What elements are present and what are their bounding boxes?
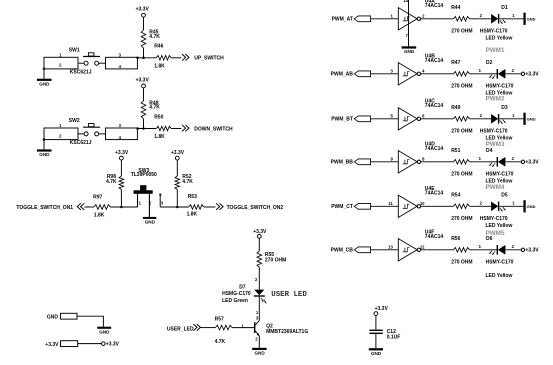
svg-text:270 OHM: 270 OHM [451,28,472,34]
svg-text:R46: R46 [154,44,163,50]
svg-text:PWM_BB: PWM_BB [331,159,354,165]
svg-text:R53: R53 [188,194,197,200]
svg-text:LED Yellow: LED Yellow [486,36,513,42]
svg-text:TOGGLE_SWITCH_ON1: TOGGLE_SWITCH_ON1 [16,205,73,211]
svg-text:UP_SWITCH: UP_SWITCH [194,56,224,62]
svg-text:PWM_AT: PWM_AT [332,16,353,22]
svg-text:HSMY-C170: HSMY-C170 [480,28,508,34]
svg-text:+3.3V: +3.3V [115,150,129,156]
svg-text:R51: R51 [451,148,460,154]
svg-text:HSMY-C170: HSMY-C170 [480,128,508,134]
svg-text:+3.3V: +3.3V [525,248,539,254]
svg-text:GND: GND [371,351,382,356]
svg-text:DOWN_SWITCH: DOWN_SWITCH [194,126,233,132]
svg-text:R56: R56 [451,236,460,242]
svg-text:74AC14: 74AC14 [425,58,444,64]
svg-text:R47: R47 [451,60,460,66]
svg-text:74AC14: 74AC14 [425,234,444,240]
svg-text:D7: D7 [239,284,246,290]
svg-text:+3.3V: +3.3V [171,150,185,156]
svg-text:74AC14: 74AC14 [425,146,444,152]
svg-text:GND: GND [145,220,156,225]
svg-text:KSC621J: KSC621J [70,69,92,75]
svg-text:PWM_BT: PWM_BT [331,116,353,122]
svg-text:PWM_CB: PWM_CB [331,247,354,253]
svg-text:10: 10 [420,201,425,206]
svg-text:13: 13 [388,245,393,250]
svg-text:USER LED: USER LED [271,291,307,299]
svg-text:HSMY-C170: HSMY-C170 [480,216,508,222]
svg-text:270 OHM: 270 OHM [451,259,472,265]
svg-text:USER_LED: USER_LED [167,327,194,333]
svg-text:HSMG-C170: HSMG-C170 [222,291,251,297]
svg-text:GND: GND [99,329,110,334]
svg-text:74AC14: 74AC14 [425,103,444,109]
svg-text:4.7K: 4.7K [149,105,160,111]
svg-text:+3.3V: +3.3V [525,160,539,166]
svg-text:1.8K: 1.8K [94,213,105,219]
svg-text:11: 11 [388,201,393,206]
svg-text:+3.3V: +3.3V [45,342,59,348]
svg-text:R57: R57 [215,317,224,323]
svg-text:PWM1: PWM1 [486,47,505,54]
svg-text:D5: D5 [501,192,508,198]
svg-text:LED Green: LED Green [222,298,248,304]
svg-text:D2: D2 [486,60,493,66]
svg-text:R50: R50 [154,114,163,120]
svg-text:74AC14: 74AC14 [425,190,444,196]
svg-text:GND: GND [254,350,265,355]
svg-text:PWM_CT: PWM_CT [331,204,353,210]
svg-text:1.8K: 1.8K [154,63,165,69]
svg-text:4.7K: 4.7K [182,179,193,185]
svg-text:D3: D3 [501,105,508,111]
svg-text:74AC14: 74AC14 [425,3,444,9]
svg-text:R97: R97 [93,194,102,200]
svg-text:1.8K: 1.8K [187,211,198,217]
svg-text:KSC621J: KSC621J [70,140,92,146]
svg-text:R54: R54 [451,192,460,198]
svg-text:4.7K: 4.7K [215,339,226,345]
svg-text:HSMY-C170: HSMY-C170 [486,83,514,89]
svg-text:GND: GND [527,17,536,22]
svg-text:4.7K: 4.7K [149,34,160,40]
svg-text:GND: GND [39,81,50,86]
svg-text:SW1: SW1 [69,47,80,53]
svg-text:HSMY-C170: HSMY-C170 [486,259,514,265]
svg-text:270 OHM: 270 OHM [451,216,472,222]
svg-text:LED Yellow: LED Yellow [486,223,513,229]
svg-text:PWM4: PWM4 [486,184,505,191]
svg-text:PWM_AB: PWM_AB [331,71,354,77]
svg-text:+3.3V: +3.3V [525,72,539,78]
svg-text:D4: D4 [486,148,493,154]
svg-text:GND: GND [39,152,50,157]
svg-text:TL39P0050: TL39P0050 [131,172,157,178]
svg-text:D1: D1 [501,5,508,11]
svg-text:GND: GND [527,204,536,209]
svg-text:12: 12 [420,245,425,250]
svg-text:+3.3V: +3.3V [136,7,150,13]
svg-text:R49: R49 [451,105,460,111]
svg-text:R44: R44 [451,5,460,11]
svg-text:270 OHM: 270 OHM [451,128,472,134]
svg-text:GND: GND [47,315,59,321]
svg-text:270 OHM: 270 OHM [451,83,472,89]
svg-text:PWM2: PWM2 [486,95,505,102]
svg-text:1.8K: 1.8K [154,134,165,140]
svg-text:+3.3V: +3.3V [136,77,150,83]
svg-text:270 OHM: 270 OHM [265,257,286,263]
svg-text:0.1UF: 0.1UF [387,335,401,341]
svg-text:4.7K: 4.7K [106,179,117,185]
svg-text:GND: GND [527,117,536,122]
svg-text:+3.3V: +3.3V [375,306,389,312]
svg-text:D6: D6 [486,236,493,242]
svg-text:GND: GND [404,49,415,54]
svg-text:14: 14 [403,0,408,3]
svg-text:HSMY-C170: HSMY-C170 [486,171,514,177]
svg-text:LED Yellow: LED Yellow [486,273,513,279]
svg-text:SW2: SW2 [69,118,80,124]
svg-text:270 OHM: 270 OHM [451,171,472,177]
svg-text:+3.3V: +3.3V [106,342,120,348]
svg-text:TOGGLE_SWITCH_ON2: TOGGLE_SWITCH_ON2 [227,205,284,211]
svg-text:MMBT2369ALT1G: MMBT2369ALT1G [266,329,308,335]
